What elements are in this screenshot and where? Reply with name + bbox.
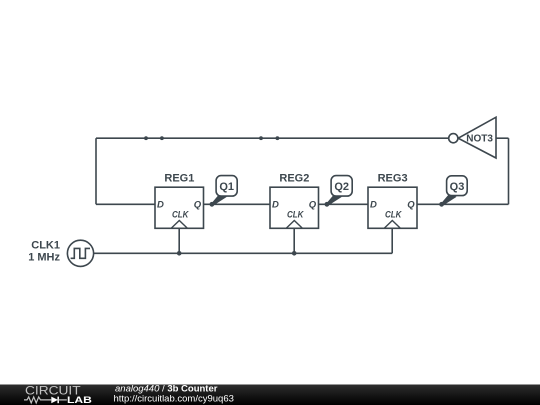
wire REG3 Q to right (417, 203, 509, 205)
svg-text:Q1: Q1 (219, 181, 234, 193)
probe Q3 (439, 176, 467, 207)
wire REG3 clock stub (391, 228, 393, 253)
svg-text:REG1: REG1 (164, 172, 194, 184)
clock source CLK1 (28, 239, 93, 266)
svg-text:LAB: LAB (67, 395, 92, 405)
svg-text:CLK: CLK (385, 209, 402, 220)
svg-text:D: D (272, 199, 279, 210)
svg-text:NOT3: NOT3 (466, 134, 493, 145)
junction dot top wire a (144, 136, 148, 140)
svg-text:CLK: CLK (287, 209, 304, 220)
junction dot clock REG1 (177, 251, 182, 256)
D flip-flop REG3 (368, 172, 417, 228)
svg-text:REG2: REG2 (279, 172, 309, 184)
logo CircuitLab (24, 384, 92, 405)
wire right vertical NOT3 input (508, 138, 510, 204)
svg-text:CLK1: CLK1 (31, 239, 60, 251)
svg-text:REG3: REG3 (378, 172, 408, 184)
D flip-flop REG1 (155, 172, 204, 228)
svg-text:http://circuitlab.com/cy9uq63: http://circuitlab.com/cy9uq63 (114, 393, 234, 404)
wire NOT3 input stub (496, 137, 509, 139)
wire REG1 Q to REG2 D (204, 203, 271, 205)
wire REG2 clock stub (293, 228, 295, 253)
wire left vertical (95, 138, 97, 204)
svg-text:D: D (157, 199, 164, 210)
svg-text:D: D (370, 199, 377, 210)
D flip-flop REG2 (270, 172, 319, 228)
svg-text:Q: Q (309, 200, 317, 211)
wire REG2 Q to REG3 D (319, 203, 369, 205)
probe Q2 (325, 176, 353, 207)
svg-text:Q: Q (407, 200, 415, 211)
wire into REG1 D (96, 203, 155, 205)
junction dot top wire c (259, 136, 263, 140)
junction dot top wire b (160, 136, 164, 140)
footer bar (0, 385, 540, 405)
junction dot top wire d (276, 136, 280, 140)
probe Q1 (210, 176, 238, 207)
junction dot clock REG2 (292, 251, 297, 256)
footer title text (114, 384, 234, 405)
wire feedback top horizontal (96, 137, 449, 139)
svg-text:1 MHz: 1 MHz (28, 251, 60, 263)
wire clock bus horizontal (94, 252, 393, 254)
wire REG1 clock stub (178, 228, 180, 253)
svg-text:Q2: Q2 (334, 181, 349, 193)
svg-text:Q3: Q3 (450, 181, 465, 193)
svg-text:CLK: CLK (172, 209, 189, 220)
svg-text:Q: Q (194, 200, 202, 211)
inverter NOT3 (449, 117, 496, 158)
